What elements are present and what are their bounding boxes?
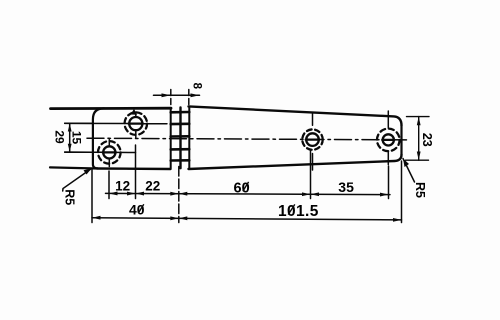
row2 dim line xyxy=(92,218,402,220)
knuckle rungs xyxy=(171,112,190,161)
leaf bottom edge xyxy=(97,167,171,170)
extension line pivot axis down xyxy=(178,167,180,223)
hole1 dashed circle xyxy=(98,141,121,164)
dim 15 line xyxy=(69,123,71,152)
svg-text:12: 12 xyxy=(115,179,130,194)
hole2 horizontal centerline xyxy=(65,122,167,124)
blade top edge xyxy=(189,106,402,125)
hole4 vertical centerline xyxy=(387,111,389,165)
R5 left leader xyxy=(63,169,92,192)
dim 15 bottom arrow xyxy=(68,144,72,152)
knuckle strip left line xyxy=(170,108,172,168)
extension line hole2 down xyxy=(135,145,137,199)
dim 8 extension lines (dashed) xyxy=(171,90,189,107)
svg-text:60: 60 xyxy=(234,180,250,196)
hole1 vertical centerline xyxy=(108,140,110,167)
hole2 vertical centerline with top arrow mark xyxy=(135,112,137,138)
dim 15 top arrow xyxy=(68,123,72,131)
row2 arrows xyxy=(92,216,101,220)
zero slash of 101.5 xyxy=(288,204,295,214)
extension line part left edge down xyxy=(91,170,93,223)
svg-text:8: 8 xyxy=(191,83,203,90)
extension line hole4 down xyxy=(388,166,390,199)
svg-text:15: 15 xyxy=(69,131,83,145)
hole2 arrow smudge at top edge xyxy=(131,109,137,115)
dim 8 right arrow xyxy=(191,93,200,97)
blade right edge xyxy=(400,126,402,155)
extension line hole1 down xyxy=(108,171,110,199)
dim 23 line xyxy=(418,117,420,161)
R5 right leader arrowhead xyxy=(403,159,409,168)
hole3 vertical centerline xyxy=(312,113,314,171)
extension line hole3 down xyxy=(310,150,312,199)
dim 23 extension ticks xyxy=(406,117,430,161)
hole3 slot line xyxy=(306,139,320,141)
svg-text:40: 40 xyxy=(129,201,145,217)
R5 left leader arrowhead xyxy=(84,169,92,175)
hole2 slot line xyxy=(129,122,144,124)
hole2 circle xyxy=(129,117,142,130)
dim 15 extension line top xyxy=(65,122,93,124)
knuckle strip right line xyxy=(188,106,190,168)
hole3 circle xyxy=(306,133,319,146)
knuckle strip center pivot line xyxy=(179,108,181,169)
hole1 horizontal centerline to left and right xyxy=(65,151,136,153)
hole1 circle xyxy=(103,146,115,158)
row1 arrows xyxy=(109,192,118,196)
leaf bottom edge (extends left) xyxy=(50,167,97,168)
extension line right corner down xyxy=(401,161,403,223)
dim 8 line xyxy=(154,94,200,96)
hole4 circle xyxy=(383,134,394,145)
svg-text:35: 35 xyxy=(338,179,354,195)
dim 23 top arrow xyxy=(417,117,421,126)
dim 23 bottom arrow xyxy=(417,152,421,161)
dim 8 left arrow xyxy=(162,93,171,97)
svg-text:23: 23 xyxy=(420,133,434,147)
zero slash of 40 xyxy=(138,204,144,213)
hole3 dashed circle xyxy=(302,129,322,149)
svg-text:101.5: 101.5 xyxy=(278,203,319,220)
svg-text:22: 22 xyxy=(145,179,160,194)
blade bottom edge xyxy=(189,155,402,169)
R5 right leader xyxy=(403,159,415,183)
dim 15 extension line bottom xyxy=(65,151,93,153)
svg-text:R5: R5 xyxy=(413,182,427,198)
main centerline dash-dot xyxy=(87,138,409,140)
zero slash of 60 xyxy=(243,182,249,191)
svg-text:R5: R5 xyxy=(63,189,77,205)
row1 dim line xyxy=(106,193,391,194)
hole2 dashed circle xyxy=(125,112,148,135)
leaf top edge (extends left) xyxy=(51,107,172,110)
hole4 slot line xyxy=(382,139,394,141)
hole4 dashed circle xyxy=(377,129,400,152)
svg-text:29: 29 xyxy=(53,130,67,144)
hole1 slot line xyxy=(103,151,116,153)
leaf left edge xyxy=(93,108,104,168)
